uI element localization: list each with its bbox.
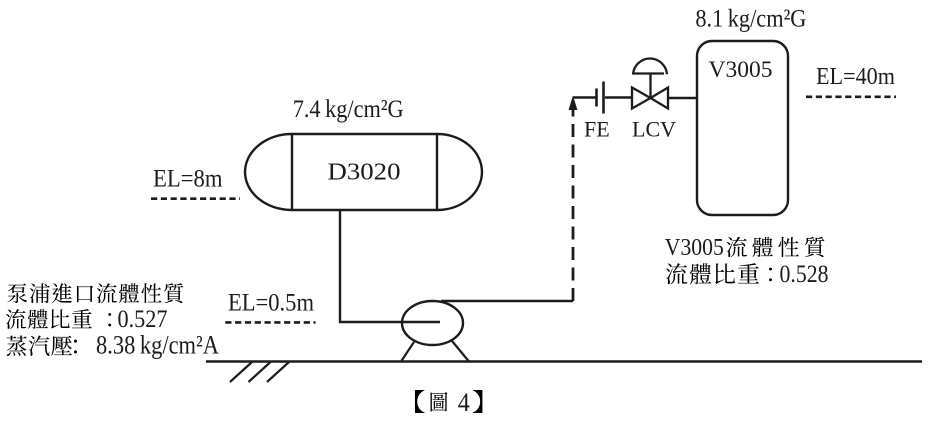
pipe: pump suction vertical from D3020 [340, 211, 440, 322]
svg-text:0.527: 0.527 [118, 304, 168, 333]
svg-text:8.38 kg/cm²A: 8.38 kg/cm²A [96, 330, 219, 359]
valve LCV body [632, 88, 668, 109]
note line 3: vapor pressure 8.38 kg/cm2A [7, 336, 27, 356]
caption figure 4 brackets and text [415, 390, 425, 413]
elevation dashed line EL=40m [806, 96, 896, 99]
svg-text:8.1 kg/cm²G: 8.1 kg/cm²G [695, 6, 806, 33]
note right line 2: specific gravity 0.528 [666, 263, 687, 284]
pipe: FE to LCV [605, 96, 632, 98]
ground hatch 3 [267, 362, 289, 382]
pipe: LCV to V3005 [668, 97, 697, 99]
pipe: pump discharge horizontal [441, 300, 573, 302]
vessel D3020 left head seam [291, 134, 293, 210]
pipe: dashed riser to FE [572, 108, 575, 301]
svg-text:4: 4 [458, 387, 470, 417]
svg-text:V3005: V3005 [709, 57, 773, 83]
svg-text:EL=40m: EL=40m [816, 63, 895, 90]
valve LCV actuator bar [634, 72, 664, 74]
valve LCV stem [649, 73, 651, 98]
elevation dashed line EL=8m [151, 197, 240, 200]
ground hatch 2 [249, 362, 271, 382]
valve LCV actuator diaphragm dome [633, 59, 667, 75]
vessel D3020 horizontal drum shell [245, 134, 482, 210]
ground line [206, 360, 922, 363]
elevation dashed line EL=0.5m [225, 321, 315, 324]
FE orifice left plate [595, 89, 598, 107]
svg-text:EL=8m: EL=8m [153, 164, 223, 193]
vessel D3020 right head seam [436, 134, 438, 210]
svg-text:D3020: D3020 [328, 159, 401, 186]
svg-text:LCV: LCV [632, 117, 676, 142]
svg-text:7.4 kg/cm²G: 7.4 kg/cm²G [293, 96, 404, 123]
FE orifice right plate [602, 82, 605, 114]
pump left leg [401, 342, 414, 362]
pump right leg [452, 341, 469, 362]
ground hatch 1 [230, 362, 252, 382]
note line 1: pump inlet fluid properties (CJK) [7, 283, 27, 303]
pipe: arrow to FE orifice [573, 96, 596, 98]
svg-text:EL=0.5m: EL=0.5m [228, 290, 314, 317]
svg-text:0.528: 0.528 [780, 259, 829, 288]
svg-text:FE: FE [584, 117, 610, 142]
note line 2: specific gravity 0.527 (CJK) [6, 309, 26, 329]
svg-text:V3005: V3005 [665, 234, 724, 261]
pump P casing [402, 301, 463, 345]
flow arrowhead up [569, 96, 578, 111]
vessel V3005 vertical drum [697, 41, 788, 215]
